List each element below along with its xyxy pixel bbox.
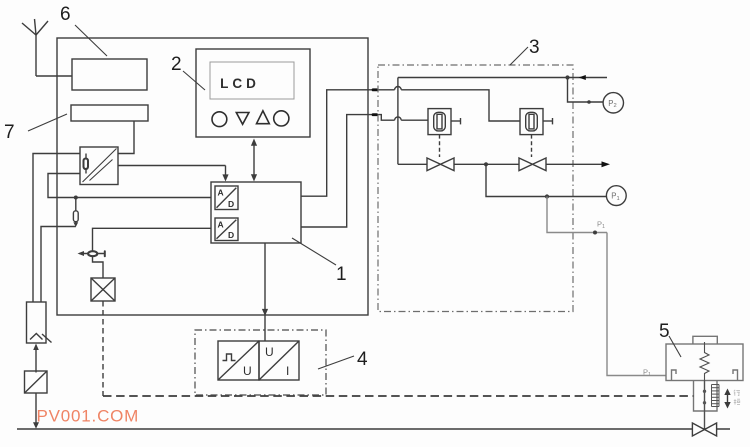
converter U/I (259, 341, 299, 380)
valve V2 (519, 158, 546, 171)
spring in regulator (700, 342, 709, 381)
converter square (diagonal) (25, 371, 48, 393)
label 5 leader (669, 336, 681, 357)
travel double arrow (724, 389, 730, 409)
stem with nodes (704, 381, 706, 430)
wire isolator to A/D top with arrow (118, 166, 229, 182)
resistor R1 (73, 198, 78, 228)
LCD buttons (212, 111, 289, 127)
svg-text:A: A (218, 220, 224, 230)
wire A/D down to box 4 converter (262, 243, 268, 341)
label 4 leader (318, 356, 354, 369)
A/D channel square 1 (215, 186, 238, 210)
valve rail (398, 163, 606, 165)
svg-text:D: D (228, 199, 234, 209)
svg-text:5: 5 (659, 321, 670, 342)
pressure sensor B1 (27, 302, 52, 343)
svg-text:PV001.COM: PV001.COM (37, 407, 140, 426)
line to gauge P1 (486, 164, 606, 196)
valve V1 (427, 158, 454, 171)
solenoid 2 (520, 109, 553, 135)
wire damper to mixer (93, 256, 104, 278)
wire isolator to A/D ch1 (48, 174, 211, 198)
node P1 tap (545, 194, 549, 198)
svg-text:D: D (228, 230, 234, 240)
long dashed signal bus (103, 395, 694, 397)
svg-text:A: A (218, 188, 224, 198)
label 3 leader (510, 47, 528, 65)
converter symbols text (243, 345, 289, 378)
P1 tap line down to regulator (547, 197, 666, 376)
junction dash on wire 1 (372, 88, 378, 91)
block 6 rectangle (72, 59, 147, 90)
block 7 rectangle (71, 105, 148, 121)
solenoid 1 (428, 109, 461, 135)
gauge P2 (603, 93, 623, 113)
converter f/U (218, 341, 259, 380)
label 1 leader (292, 238, 336, 265)
wire antenna to block 6 (36, 75, 72, 77)
P1 grey labels (597, 220, 651, 378)
arrow at rail end (602, 161, 611, 167)
antenna (22, 19, 48, 76)
double arrow LCD to A/D (251, 139, 257, 182)
mixer box (X) (91, 278, 115, 301)
arrow into sensor bottom (33, 344, 39, 373)
svg-text:U: U (265, 345, 274, 359)
wire isolator to sensor (left top) (33, 154, 80, 303)
junction dash on wire 2 (372, 113, 378, 116)
A/D channel square 2 (215, 218, 238, 241)
wire A/D to solenoid 1 (lower path) (301, 115, 428, 227)
A/D labels (218, 188, 235, 241)
svg-text:7: 7 (4, 122, 15, 143)
box 4 dash-dot border (195, 330, 326, 395)
wire resistor to sensor (left) (41, 227, 76, 303)
A/D unit box U1 (211, 182, 301, 243)
node at P2 branch (565, 75, 569, 79)
dashed wire mixer down to dashed bus (102, 301, 104, 396)
svg-text:6: 6 (60, 4, 71, 25)
wire damper to A/D ch2 (93, 228, 212, 250)
wire A/D to solenoid 2 (upper path) (301, 86, 520, 196)
bottom valve (692, 423, 716, 436)
label 7 leader (28, 114, 67, 131)
bottom pipe (17, 428, 730, 430)
node at P1 branch on rail (484, 162, 488, 166)
LCD unit (196, 49, 310, 137)
label 6 leader (75, 25, 107, 56)
travel text (grey glyph marks) (734, 390, 740, 405)
ribbed adjuster (712, 385, 720, 407)
svg-text:I: I (286, 364, 289, 378)
svg-text:U: U (243, 364, 252, 378)
svg-text:4: 4 (357, 349, 368, 370)
top rail to P2 junction (398, 77, 607, 79)
dashed link solenoid1 to valve1 (439, 135, 441, 157)
pipe riser in box 3 (397, 78, 399, 165)
regulator 5 body (666, 336, 743, 380)
label 2 leader (183, 71, 205, 90)
node on A/D ch1 wire (74, 196, 78, 200)
svg-text:2: 2 (171, 54, 182, 75)
dashed link solenoid2 to valve2 (531, 135, 533, 157)
wire block7 to isolator U3 (118, 121, 134, 154)
svg-text:LCD: LCD (220, 76, 260, 91)
svg-text:1: 1 (336, 264, 347, 285)
damper / restrictor (78, 251, 105, 256)
regulator lower chamber (694, 381, 718, 412)
arrow on top rail (pointing left) (579, 75, 586, 80)
box 3 dash-dot border (378, 65, 573, 312)
gauge P1 (606, 186, 626, 206)
isolator U3 (80, 147, 118, 185)
branch to gauge P2 (568, 78, 604, 103)
main enclosure box (57, 38, 368, 315)
wire converter to bottom pipe with arrow (33, 393, 39, 429)
svg-text:3: 3 (529, 37, 540, 58)
